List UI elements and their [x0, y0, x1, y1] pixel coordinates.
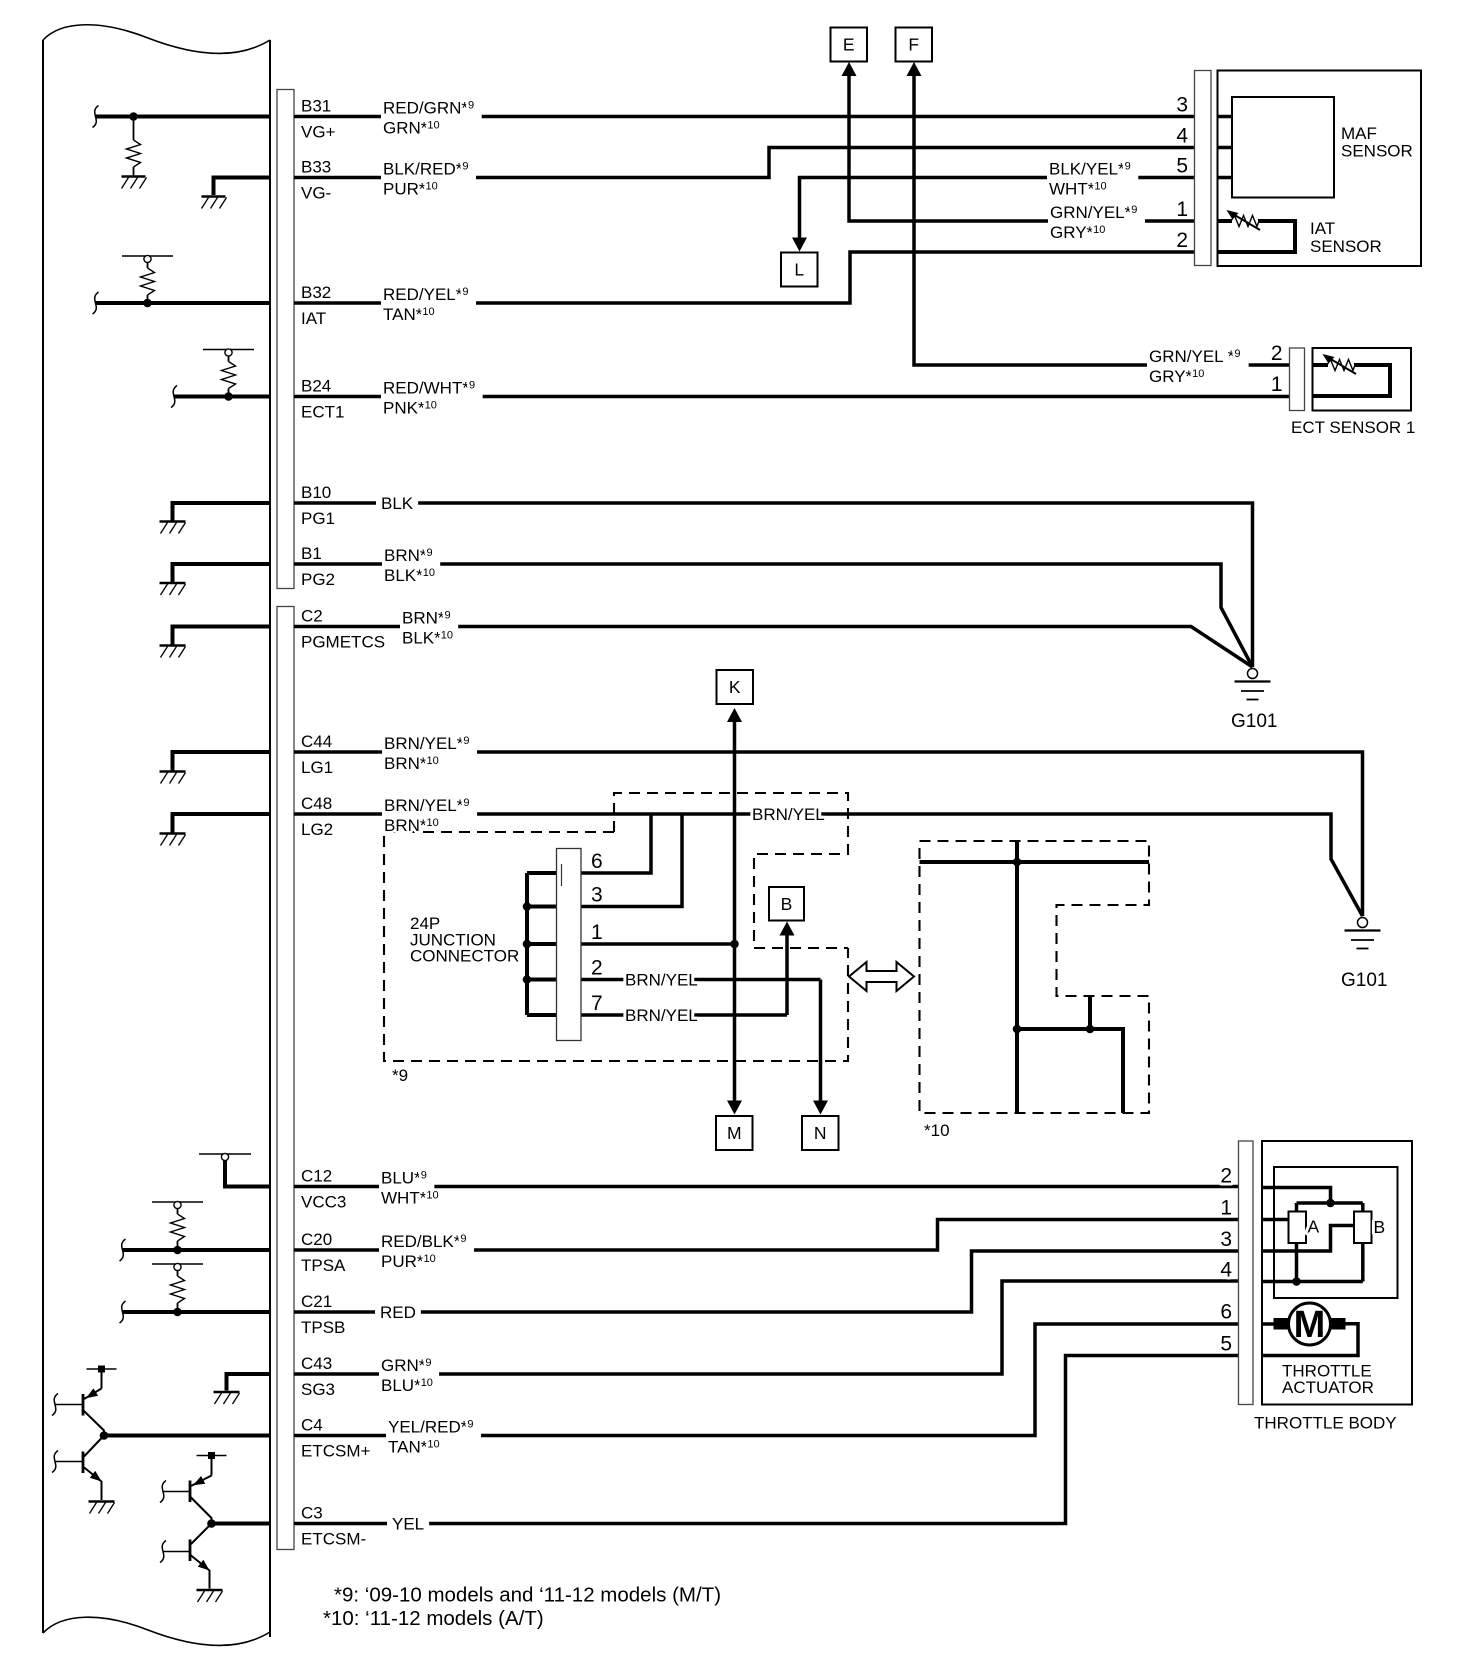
label G101 (upper) [1231, 711, 1277, 732]
node sensor A bottom junction [1292, 1277, 1301, 1286]
ECT sensor box [1313, 348, 1412, 411]
footnote *10 [323, 1607, 544, 1630]
ground PG1 [160, 522, 186, 534]
wire C21 TPSB to TB pin 3 [294, 1251, 1239, 1312]
svg-text:MAF: MAF [1341, 124, 1377, 143]
svg-text:6: 6 [1220, 1301, 1232, 1324]
arrow into connector N [813, 1101, 828, 1115]
motor M1 (throttle actuator) [1274, 1303, 1346, 1346]
power symbol Q3 [197, 1452, 227, 1459]
wire ETCSM+ internal [104, 1434, 270, 1438]
resistor TPSA pull-up [171, 1208, 185, 1250]
svg-text:ECT1: ECT1 [301, 403, 344, 422]
svg-text:2: 2 [1271, 342, 1283, 365]
wire label C44 [382, 734, 477, 773]
svg-text:6: 6 [591, 850, 603, 873]
pin name ETCSM+ [301, 1442, 371, 1461]
arrow into connector B [780, 922, 795, 936]
pin label C4 [301, 1416, 323, 1435]
pin label B24 [301, 377, 331, 396]
power symbol ECT1 pull-up [203, 349, 254, 356]
throttle body box [1262, 1141, 1412, 1405]
pin number junction 1 [591, 921, 603, 944]
ground LG1 [160, 772, 186, 784]
svg-text:A: A [1308, 1217, 1320, 1237]
svg-text:5: 5 [1220, 1333, 1232, 1356]
pin label B33 [301, 158, 331, 177]
ground PG2 [160, 583, 186, 595]
ECM connector bracket C [277, 607, 294, 1550]
svg-text:VG-: VG- [301, 184, 331, 203]
pin label C48 [301, 794, 332, 813]
svg-text:BRN/YEL*9: BRN/YEL*9 [384, 796, 470, 815]
node junction bus pin1 [523, 940, 532, 949]
wire VG- internal [214, 176, 271, 196]
ground VG- [202, 197, 227, 209]
pin number junction 2 [591, 957, 603, 980]
svg-text:PG2: PG2 [301, 570, 335, 589]
resistor TPSB pull-up [171, 1270, 185, 1312]
svg-text:BLK/YEL*9: BLK/YEL*9 [1049, 160, 1131, 179]
svg-text:ETCSM+: ETCSM+ [301, 1442, 371, 1461]
wire B32 IAT to MAF pin 2 [294, 252, 1195, 303]
power symbol IAT pull-up [122, 255, 173, 262]
wire C48 LG2 / BRN-YEL bus [294, 814, 1363, 916]
arrow into connector F [907, 62, 922, 76]
pin name VG+ [301, 123, 336, 142]
wire MAF pin 5 stub [1218, 176, 1233, 180]
pin name ETCSM- [301, 1530, 366, 1549]
wire C20 TPSA to TB pin 1 [294, 1220, 1239, 1251]
wire SG3 internal [227, 1372, 271, 1391]
svg-text:TPSA: TPSA [301, 1256, 346, 1275]
svg-text:SG3: SG3 [301, 1380, 335, 1399]
ground LG2 [160, 834, 186, 846]
wire label BRN/YEL C48 bus [752, 805, 825, 824]
svg-text:GRN*9: GRN*9 [381, 1356, 432, 1375]
wire label C12 [379, 1169, 439, 1208]
svg-text:*10: *10 [924, 1121, 950, 1140]
svg-text:PG1: PG1 [301, 509, 335, 528]
svg-text:B: B [1374, 1217, 1386, 1237]
wire label B31 [381, 99, 482, 138]
wire label ECT pin2 [1147, 347, 1249, 386]
wire junction bus [527, 873, 557, 1015]
label THROTTLE ACTUATOR [1282, 1362, 1374, 1398]
node TP sensor top junction [1326, 1199, 1335, 1208]
node *10 junction lower [1013, 1025, 1022, 1034]
arrow into connector L [792, 238, 807, 252]
wire label C48 [382, 796, 477, 835]
svg-text:C3: C3 [301, 1504, 323, 1523]
wire *10 stub [1088, 996, 1092, 1029]
svg-text:B24: B24 [301, 377, 331, 396]
wire TB pin 1 internal [1262, 1218, 1289, 1222]
pin label C2 [301, 607, 323, 626]
node TPSA junction [173, 1246, 182, 1255]
pin label B10 [301, 483, 331, 502]
connector box N [802, 1116, 839, 1150]
pin name ECT1 [301, 403, 344, 422]
pin number junction 6 [591, 850, 603, 873]
svg-text:7: 7 [591, 992, 603, 1015]
wire *10 lower link [1017, 1029, 1123, 1113]
wire TB pin 2 internal [1262, 1188, 1331, 1204]
svg-text:IAT: IAT [1310, 219, 1335, 238]
svg-text:C43: C43 [301, 1354, 332, 1373]
ground Q4 emitter [197, 1590, 223, 1602]
connector box M [716, 1116, 753, 1150]
wire TPSA internal [120, 1239, 271, 1261]
pin label C43 [301, 1354, 332, 1373]
svg-text:GRN/YEL *9: GRN/YEL *9 [1149, 347, 1240, 366]
wire C3 ETCSM- to TB pin 5 [294, 1356, 1239, 1524]
equivalence double arrow [849, 962, 914, 991]
svg-text:SENSOR: SENSOR [1341, 142, 1413, 161]
svg-text:G101: G101 [1341, 970, 1387, 991]
transistor Q2 (NPN lower driver) [52, 1436, 104, 1501]
pin number ECT 1 [1271, 373, 1283, 396]
ground G101 (lower) [1345, 918, 1381, 949]
node ETCSM- junction [207, 1519, 216, 1528]
wire label B1 [382, 546, 440, 585]
svg-text:K: K [729, 677, 741, 697]
pin label C3 [301, 1504, 323, 1523]
ECM/PCM torn-edge bottom wave [43, 1617, 270, 1645]
wire TP sensor top link [1297, 1201, 1363, 1205]
svg-text:THROTTLE BODY: THROTTLE BODY [1254, 1414, 1397, 1433]
svg-text:E: E [843, 35, 855, 55]
wire B1 PG2 to G101 [294, 564, 1253, 667]
node VG+ junction [129, 112, 138, 121]
wire B31 VG+ to MAF pin 3 [294, 115, 1195, 119]
wire label MAF pin1 [1048, 203, 1145, 242]
label *10 [924, 1121, 950, 1140]
transistor Q3 (PNP upper driver) [160, 1456, 212, 1524]
svg-text:RED: RED [380, 1303, 416, 1322]
wire label MAF pin5 [1047, 160, 1138, 199]
node ECT1 junction [224, 392, 233, 401]
svg-text:TPSB: TPSB [301, 1318, 345, 1337]
footnote *9 [334, 1584, 721, 1607]
thermistor ECT1 [1323, 354, 1357, 374]
wire connector B line [785, 929, 789, 1015]
ECM/PCM torn-edge top wave [43, 25, 270, 54]
throttle position sensor B [1354, 1212, 1372, 1244]
svg-text:4: 4 [1176, 125, 1188, 148]
pin name PG1 [301, 509, 335, 528]
pin number MAF 2 [1176, 229, 1188, 252]
label sensor A [1308, 1217, 1320, 1237]
dashed harness box *10 [920, 841, 1150, 1113]
24P junction connector body [557, 849, 582, 1041]
node *10 stub junction [1086, 1025, 1095, 1034]
svg-text:BRN/YEL: BRN/YEL [625, 1006, 698, 1025]
ground SG3 [214, 1392, 240, 1404]
svg-text:F: F [908, 35, 919, 55]
wire MAF pin 3 stub [1218, 115, 1233, 119]
wire sensor A bottom lead [1295, 1243, 1299, 1282]
ECM connector bracket B [277, 90, 294, 589]
ground VG+ pulldown [122, 177, 147, 189]
svg-text:YEL/RED*9: YEL/RED*9 [388, 1418, 474, 1437]
svg-text:B1: B1 [301, 544, 322, 563]
pin number junction 7 [591, 992, 603, 1015]
svg-text:B31: B31 [301, 97, 331, 116]
wire *10 bus vertical [1015, 841, 1019, 1113]
connector box K [717, 670, 754, 704]
power symbol Q1 [87, 1366, 117, 1373]
pin name LG1 [301, 758, 333, 777]
pin name VG- [301, 184, 331, 203]
power symbol TPSA pull-up [152, 1201, 203, 1208]
pin number ECT 2 [1271, 342, 1283, 365]
wire PG2 internal [173, 562, 271, 582]
MAF sensor inner element [1232, 97, 1334, 198]
svg-text:ECT SENSOR 1: ECT SENSOR 1 [1291, 418, 1415, 437]
wire C2 PGMETCS to G101 [294, 627, 1253, 668]
wire B10 PG1 to G101 [294, 503, 1253, 667]
node ETCSM+ junction [100, 1431, 109, 1440]
svg-text:RED/BLK*9: RED/BLK*9 [381, 1232, 467, 1251]
wire label B10 [376, 494, 418, 513]
pin number MAF 1 [1176, 198, 1188, 221]
wire ECT element loop [1313, 365, 1391, 396]
pin number MAF 5 [1176, 155, 1188, 178]
wire MAF pin 4 stub [1218, 146, 1233, 150]
pin number MAF 3 [1176, 94, 1188, 117]
power symbol TPSB pull-up [152, 1263, 203, 1270]
wire connector F to ECT pin 2 [914, 69, 1290, 365]
wire C4 ETCSM+ to TB pin 6 [294, 1324, 1239, 1436]
svg-text:IAT: IAT [301, 309, 326, 328]
svg-text:YEL: YEL [392, 1515, 424, 1534]
svg-text:LG2: LG2 [301, 820, 333, 839]
wire label C43 [379, 1356, 439, 1395]
label IAT SENSOR [1310, 219, 1382, 256]
wire label BRN/YEL junction pin7 [625, 1006, 698, 1025]
svg-text:3: 3 [1176, 94, 1188, 117]
svg-text:ACTUATOR: ACTUATOR [1282, 1378, 1374, 1397]
svg-text:C48: C48 [301, 794, 332, 813]
wire TB pin 3 internal [1262, 1226, 1354, 1252]
pin name TPSB [301, 1318, 345, 1337]
ECM/PCM module outline left edge [42, 40, 44, 1633]
connector box E [831, 28, 868, 62]
wire sensor B bottom lead [1361, 1243, 1365, 1282]
wire TB pin 6 internal [1262, 1322, 1274, 1326]
label *9 [392, 1066, 408, 1085]
pin number TB 2 [1220, 1165, 1232, 1188]
svg-text:B10: B10 [301, 483, 331, 502]
svg-text:C4: C4 [301, 1416, 323, 1435]
wire label B32 [381, 285, 476, 324]
resistor ECT1 pull-up [222, 356, 236, 397]
ground PGMETCS [160, 646, 186, 658]
label THROTTLE BODY [1254, 1414, 1397, 1433]
wire C12 VCC3 to TB pin 2 [294, 1185, 1239, 1189]
svg-text:B33: B33 [301, 158, 331, 177]
wire PGMETCS internal [173, 625, 271, 645]
node *10 junction upper [1013, 858, 1022, 867]
connector box L [781, 253, 818, 287]
svg-text:3: 3 [591, 884, 603, 907]
ECT sensor connector bracket [1290, 348, 1305, 411]
svg-text:RED/WHT*9: RED/WHT*9 [383, 379, 475, 398]
svg-text:N: N [814, 1123, 827, 1143]
wire label BRN/YEL junction pin2 [625, 971, 698, 990]
svg-text:C44: C44 [301, 732, 332, 751]
arrow into connector M [727, 1101, 742, 1115]
wire connector L to MAF pin 5 [800, 178, 1195, 245]
svg-text:*9: *9 [392, 1066, 408, 1085]
svg-text:BRN/YEL*9: BRN/YEL*9 [384, 734, 470, 753]
svg-text:RED/GRN*9: RED/GRN*9 [383, 99, 474, 118]
wire IAT element loop [1218, 221, 1296, 252]
MAF sensor connector bracket [1195, 71, 1212, 266]
node pin1/K junction [730, 940, 739, 949]
wire label C4 [386, 1418, 481, 1457]
power symbol VCC3 [199, 1153, 251, 1160]
pin name TPSA [301, 1256, 346, 1275]
svg-text:CONNECTOR: CONNECTOR [410, 947, 519, 966]
wire TB pin 5 internal [1262, 1324, 1358, 1356]
wire VCC3 internal [225, 1160, 270, 1189]
svg-text:VCC3: VCC3 [301, 1193, 346, 1212]
wire C43 SG3 to TB pin 4 [294, 1281, 1239, 1374]
throttle sensor inner box [1274, 1167, 1398, 1298]
transistor Q1 (PNP upper driver) [52, 1369, 104, 1436]
wire label C21 [375, 1303, 421, 1322]
svg-text:M: M [1294, 1304, 1326, 1346]
svg-text:1: 1 [1271, 373, 1283, 396]
dashed harness box *9 (24P junction connector group) [384, 793, 848, 1061]
svg-text:B32: B32 [301, 283, 331, 302]
svg-text:BLK/RED*9: BLK/RED*9 [383, 160, 469, 179]
svg-text:PGMETCS: PGMETCS [301, 633, 385, 652]
wire label C2 [400, 609, 458, 648]
connector box B [769, 887, 804, 921]
svg-text:BRN*9: BRN*9 [402, 609, 451, 628]
wire junction pin 3 branch [581, 814, 682, 907]
svg-text:*10: ‘11-12 models (A/T): *10: ‘11-12 models (A/T) [323, 1607, 544, 1630]
wire connector N line [819, 980, 823, 1101]
svg-text:*9: ‘09-10 models and ‘11-12 m: *9: ‘09-10 models and ‘11-12 models (M/T… [334, 1584, 721, 1607]
resistor IAT pull-up [141, 262, 155, 303]
svg-text:1: 1 [1220, 1197, 1232, 1220]
pin number TB 5 [1220, 1333, 1232, 1356]
svg-text:BRN/YEL: BRN/YEL [625, 971, 698, 990]
label MAF SENSOR [1341, 124, 1413, 161]
svg-text:C2: C2 [301, 607, 323, 626]
svg-text:1: 1 [1176, 198, 1188, 221]
node TPSB junction [173, 1308, 182, 1317]
pin name SG3 [301, 1380, 335, 1399]
label sensor B [1374, 1217, 1386, 1237]
thermistor IAT [1227, 210, 1261, 230]
node junction bus pin2 [523, 975, 532, 984]
svg-text:3: 3 [1220, 1228, 1232, 1251]
svg-text:4: 4 [1220, 1259, 1232, 1282]
svg-text:BLK: BLK [381, 494, 414, 513]
pin label B31 [301, 97, 331, 116]
node junction bus pin3 [523, 902, 532, 911]
ground G101 (upper) [1235, 669, 1271, 700]
ground Q2 emitter [89, 1502, 115, 1514]
arrow into connector K [727, 708, 742, 722]
svg-text:BRN/YEL: BRN/YEL [752, 805, 825, 824]
connector box F [896, 28, 933, 62]
pin label C21 [301, 1292, 332, 1311]
pin label C20 [301, 1230, 332, 1249]
wire label C3 [387, 1515, 429, 1534]
wire label B24 [381, 379, 483, 418]
svg-text:M: M [727, 1123, 742, 1143]
ECM/PCM module outline right edge [269, 40, 271, 1637]
wire sensor B top lead [1361, 1203, 1365, 1212]
pin number TB 1 [1220, 1197, 1232, 1220]
pin name LG2 [301, 820, 333, 839]
svg-text:GRN/YEL*9: GRN/YEL*9 [1050, 203, 1137, 222]
wire TPSB internal [120, 1301, 271, 1323]
svg-text:C21: C21 [301, 1292, 332, 1311]
wire B33 VG- to MAF pin 4 [294, 148, 1195, 178]
resistor VG+ pulldown [127, 117, 141, 176]
svg-text:SENSOR: SENSOR [1310, 237, 1382, 256]
pin number junction 3 [591, 884, 603, 907]
arrow into connector E [842, 62, 857, 76]
pin name VCC3 [301, 1193, 346, 1212]
wire LG2 internal [173, 812, 271, 833]
wire ECT1 internal [171, 386, 270, 408]
wire *10 bus horizontal [920, 860, 1150, 864]
MAF sensor box [1218, 71, 1422, 267]
pin name IAT [301, 309, 326, 328]
wire connector E to MAF pin 1 [849, 69, 1195, 221]
wire sensor A top lead [1295, 1203, 1299, 1212]
svg-text:2: 2 [1220, 1165, 1232, 1188]
wire IAT internal [93, 292, 271, 314]
node IAT junction [143, 299, 152, 308]
svg-text:L: L [794, 260, 804, 280]
label G101 (lower) [1341, 970, 1387, 991]
wire LG1 internal [173, 750, 271, 771]
wire junction pin 2 to N line [581, 978, 821, 982]
wire B24 ECT1 to ECT pin 1 [294, 395, 1290, 399]
pin label C44 [301, 732, 332, 751]
pin number TB 4 [1220, 1259, 1232, 1282]
svg-text:2: 2 [591, 957, 603, 980]
svg-text:RED/YEL*9: RED/YEL*9 [383, 285, 469, 304]
wire ETCSM- internal [212, 1522, 271, 1526]
svg-text:C12: C12 [301, 1167, 332, 1186]
pin number TB 3 [1220, 1228, 1232, 1251]
pin name PG2 [301, 570, 335, 589]
pin label B32 [301, 283, 331, 302]
throttle position sensor A [1289, 1212, 1307, 1244]
svg-text:G101: G101 [1231, 711, 1277, 732]
wire VG+ internal [93, 106, 271, 128]
throttle body connector bracket [1239, 1141, 1254, 1405]
svg-text:LG1: LG1 [301, 758, 333, 777]
wire TB pin 4 internal [1262, 1280, 1363, 1284]
svg-text:1: 1 [591, 921, 603, 944]
svg-text:VG+: VG+ [301, 123, 336, 142]
wire junction pin 1 to K line [581, 942, 735, 946]
svg-text:C20: C20 [301, 1230, 332, 1249]
wire connector K line [733, 716, 737, 1101]
wire label C20 [379, 1232, 474, 1271]
